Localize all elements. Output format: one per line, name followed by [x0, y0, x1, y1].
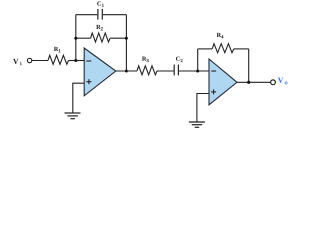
capacitor C1 — [98, 9, 102, 20]
wire op-amp2 output to Vo — [237, 81, 271, 83]
wire op-amp2 + input — [197, 94, 209, 123]
label R4: subscript 4 — [221, 35, 223, 38]
node junction R1/feedback — [74, 59, 77, 62]
wire C1 top left — [76, 14, 98, 16]
resistor R1 — [48, 55, 68, 64]
wire Vi terminal to R1 — [32, 60, 48, 62]
label R4: R — [217, 33, 221, 37]
wire op-amp1 output — [116, 70, 137, 72]
wire R4 right lead — [234, 48, 249, 50]
wire R1 to inverting input node — [69, 60, 85, 62]
capacitor C2 — [174, 65, 178, 76]
ground (op-amp1 + input) — [65, 113, 81, 119]
wire C2 to op-amp2 inverting input — [179, 70, 209, 72]
resistor R3 — [137, 66, 157, 75]
label C2: subscript 2 — [181, 59, 183, 62]
wire feedback2 left vertical — [197, 49, 199, 71]
wire feedback left vertical — [75, 15, 77, 61]
wire C1 top right — [103, 14, 127, 16]
resistor R4 — [212, 44, 234, 53]
wire R4 left lead — [198, 48, 212, 50]
node junction op-amp2 inverting input — [196, 70, 199, 73]
wire op-amp1 + input — [73, 83, 84, 113]
wire R2 right lead — [110, 37, 126, 39]
label Vi: subscript i — [20, 62, 21, 65]
node junction op-amp1 output — [125, 70, 128, 73]
label R1: R — [54, 47, 58, 51]
wire feedback right vertical — [125, 15, 127, 71]
label R3: R — [142, 57, 146, 61]
label R3: subscript 3 — [147, 59, 149, 62]
label Vo: V — [278, 78, 283, 83]
op-amp U2 — [209, 59, 237, 105]
node junction R2 right — [125, 37, 128, 40]
label C1: C — [97, 1, 101, 5]
label R2: R — [96, 25, 100, 29]
label C1: subscript 1 — [102, 4, 104, 7]
resistor R2 — [91, 33, 111, 42]
label R1: subscript 1 — [59, 49, 61, 52]
label Vi: V — [13, 59, 18, 64]
wire R2 left lead — [76, 37, 91, 39]
wire R3 to C2 — [157, 70, 174, 72]
label R2: subscript 2 — [101, 27, 103, 30]
node junction R2 left — [74, 37, 77, 40]
junction dots — [74, 37, 250, 84]
node junction op-amp2 output — [247, 81, 250, 84]
label Vo: subscript o — [285, 82, 287, 85]
ground (op-amp2 + input) — [189, 122, 205, 127]
node Vi input terminal — [27, 58, 31, 62]
wire feedback2 right vertical — [248, 49, 250, 82]
op-amp U1 — [84, 48, 116, 96]
node Vo output terminal — [271, 80, 276, 85]
label C2: C — [176, 57, 180, 61]
